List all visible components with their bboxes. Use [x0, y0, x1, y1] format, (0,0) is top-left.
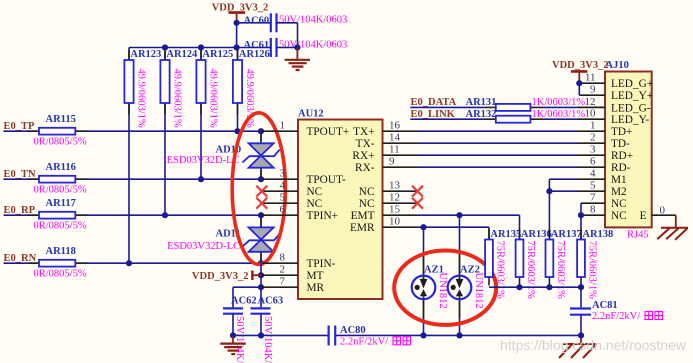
- svg-text:9: 9: [389, 156, 395, 168]
- svg-text:VDD_3V3_2: VDD_3V3_2: [192, 271, 249, 282]
- pin 3 RD+ (AJ10): [578, 144, 633, 162]
- svg-text:RD-: RD-: [611, 162, 631, 174]
- junction VDD node: [234, 20, 240, 26]
- svg-text:VDD_3V3_2: VDD_3V3_2: [552, 60, 609, 71]
- wire E0_TN: [4, 178, 263, 180]
- wire resistor rail: [489, 286, 581, 288]
- svg-text:NC: NC: [307, 198, 323, 210]
- svg-text:1K/0603/1%: 1K/0603/1%: [532, 109, 586, 120]
- svg-text:1K/0603/1%: 1K/0603/1%: [532, 97, 586, 108]
- pin 8 TPIN- (AU12 left): [262, 252, 336, 270]
- svg-text:NC: NC: [359, 186, 375, 198]
- svg-text:0R/0805/5%: 0R/0805/5%: [34, 268, 87, 279]
- wire NC7/NC8 to AR138: [580, 203, 582, 239]
- svg-text:RX-: RX-: [355, 162, 375, 174]
- pin 3 TPOUT- (AU12 left): [262, 168, 346, 186]
- svg-text:NC: NC: [359, 198, 375, 210]
- resistor AR124: [160, 50, 169, 115]
- svg-text:AR126: AR126: [239, 49, 270, 60]
- svg-text:1: 1: [280, 120, 286, 132]
- wire TX/RX row y=155.2: [417, 154, 578, 156]
- capacitor AC81: [570, 309, 591, 315]
- svg-text:AC60: AC60: [244, 15, 270, 26]
- svg-text:0R/0805/5%: 0R/0805/5%: [34, 220, 87, 231]
- svg-text:AR138: AR138: [582, 229, 613, 240]
- wire VDD to AC60 row: [237, 23, 271, 48]
- svg-text:MT: MT: [307, 270, 324, 282]
- svg-text:8: 8: [590, 204, 596, 216]
- svg-text:RX+: RX+: [352, 150, 374, 162]
- svg-text:12: 12: [585, 96, 596, 108]
- svg-text:E0_LINK: E0_LINK: [411, 109, 456, 120]
- pin 1 TPOUT+ (AU12 left): [262, 120, 349, 138]
- svg-text:3: 3: [280, 168, 286, 180]
- svg-text:10: 10: [389, 216, 401, 228]
- svg-text:10: 10: [585, 108, 597, 120]
- svg-text:13: 13: [389, 180, 401, 192]
- resistor AR136: [516, 229, 524, 286]
- pin 14 TX- (AU12 right): [356, 132, 417, 150]
- svg-text:AC62: AC62: [231, 296, 257, 307]
- wire AD column to MT/MR/AC63: [260, 263, 262, 308]
- svg-text:50V/104K/0603: 50V/104K/0603: [279, 40, 347, 51]
- diode AD11 (ESD): [242, 215, 279, 263]
- junction M2: [546, 188, 552, 194]
- junction resistor rail: [516, 284, 584, 290]
- svg-text:ESD03V32D-LC: ESD03V32D-LC: [167, 155, 240, 166]
- junction EMT/AZ2: [456, 212, 462, 218]
- pin 6 RD- (AJ10): [578, 156, 631, 174]
- resistor AR115: [28, 128, 88, 135]
- wire AR138 rail to AC81: [580, 287, 582, 308]
- svg-text:EMR: EMR: [350, 222, 375, 234]
- svg-text:LED_Y-: LED_Y-: [611, 114, 650, 126]
- capacitor AC63: [251, 308, 271, 313]
- svg-text:9: 9: [590, 84, 596, 96]
- wire M2 link: [549, 190, 578, 192]
- svg-text:UN1812: UN1812: [437, 273, 448, 309]
- wire TX/RX row y=167.2: [417, 166, 578, 168]
- svg-text:15: 15: [389, 204, 401, 216]
- connector AJ10 body: [605, 72, 652, 228]
- svg-text:AR118: AR118: [46, 246, 76, 257]
- wire AC62/AC63 to bottom rail: [233, 314, 261, 336]
- svg-text:7: 7: [280, 276, 286, 288]
- power VDD_3V3_2 (at MT): [192, 271, 261, 283]
- svg-text:75R/0603/1%: 75R/0603/1%: [555, 241, 566, 300]
- svg-text:AR116: AR116: [46, 162, 76, 173]
- junction AD11 pins: [258, 212, 264, 266]
- svg-text:MR: MR: [307, 282, 325, 294]
- svg-text:75R/0603/1%: 75R/0603/1%: [495, 241, 506, 300]
- wire E0_LINK: [410, 118, 578, 120]
- junction AR124/E0_RP: [162, 212, 168, 218]
- junction AR126/E0_TP: [234, 128, 240, 134]
- svg-text:5: 5: [590, 180, 596, 192]
- transistor AZ2 (gas discharge tube): [448, 215, 472, 335]
- junction NC8: [578, 212, 584, 218]
- pin 7 MR (AU12 left): [262, 276, 325, 294]
- svg-text:75R/0603/1%: 75R/0603/1%: [525, 241, 536, 300]
- marker ellipse (AD10/AD11): [232, 113, 285, 265]
- svg-text:6: 6: [590, 156, 596, 168]
- pin 6 TPIN+ (AU12 left): [262, 204, 338, 222]
- junction bottom rail: [230, 332, 584, 338]
- pin 4 M1 (AJ10): [578, 168, 627, 186]
- svg-text:LED_Y+: LED_Y+: [611, 90, 653, 102]
- svg-text:AR123: AR123: [130, 49, 161, 60]
- capacitor AC61: [271, 38, 277, 57]
- no-connect X pin13: [412, 186, 423, 197]
- pin 4 NC (AU12 left): [262, 180, 322, 198]
- svg-text:4: 4: [280, 180, 286, 192]
- capacitor AC80: [329, 326, 336, 346]
- svg-text:14: 14: [389, 132, 401, 144]
- no-connect X pin5: [256, 198, 267, 209]
- svg-text:TPOUT+: TPOUT+: [307, 126, 350, 138]
- svg-text:0: 0: [660, 204, 666, 216]
- wire EMT to AR136: [417, 215, 520, 239]
- svg-text:AR125: AR125: [202, 49, 233, 60]
- resistor AR125: [196, 50, 205, 115]
- wire E0_RN: [4, 262, 263, 264]
- pin 5 M2 (AJ10): [578, 180, 627, 198]
- wire column AR123: [128, 48, 130, 264]
- resistor AR126: [233, 50, 242, 115]
- value AC80 2.2nF/2kV/直插: [340, 336, 411, 347]
- svg-text:TD-: TD-: [611, 138, 630, 150]
- pin 9 LED_Y+ (AJ10): [579, 84, 653, 102]
- ground (top, near AC61): [285, 48, 310, 71]
- pin 13 NC (AU12 right): [359, 180, 417, 198]
- no-connect X pin4: [256, 186, 267, 197]
- power VDD_3V3_2 (at AJ10): [552, 60, 609, 83]
- svg-text:EMT: EMT: [351, 210, 375, 222]
- svg-text:49.9/0603/1%: 49.9/0603/1%: [136, 69, 147, 128]
- svg-text:11: 11: [389, 144, 400, 156]
- wire TX/RX row y=131.2: [417, 130, 578, 132]
- junction AD10 pins: [258, 128, 264, 182]
- pin 10 LED_Y- (AJ10): [578, 108, 650, 126]
- wire column AR124: [164, 48, 166, 216]
- svg-text:2.2nF/2kV/: 2.2nF/2kV/: [592, 311, 640, 322]
- resistor AR118: [28, 260, 88, 267]
- wire bottom rail: [233, 334, 581, 336]
- value AC81 2.2nF/2kV/直插: [592, 311, 663, 322]
- svg-text:AR117: AR117: [46, 198, 76, 209]
- svg-text:5: 5: [280, 192, 286, 204]
- svg-text:75R/0603/1%: 75R/0603/1%: [587, 241, 598, 300]
- svg-text:M2: M2: [611, 186, 627, 198]
- pin 15 EMT (AU12 right): [351, 204, 417, 222]
- svg-text:RJ45: RJ45: [627, 230, 649, 241]
- wire top rail: [129, 47, 298, 49]
- wire column AR126: [237, 48, 239, 132]
- resistor AR132: [483, 116, 543, 123]
- svg-text:TPOUT-: TPOUT-: [307, 174, 346, 186]
- pin 8 NC (AJ10): [581, 204, 627, 222]
- svg-text:TX-: TX-: [356, 138, 375, 150]
- pin 11 LED_G+ (AJ10): [579, 72, 653, 90]
- svg-text:8: 8: [280, 252, 286, 264]
- resistor AR116: [28, 176, 88, 183]
- svg-text:1: 1: [590, 120, 596, 132]
- svg-text:7: 7: [590, 192, 596, 204]
- resistor AR117: [28, 212, 88, 219]
- svg-text:RD+: RD+: [611, 150, 633, 162]
- wire M1/M2 to AR137: [549, 179, 578, 239]
- wire TX/RX row y=143.2: [417, 142, 578, 144]
- pin 1 TD+ (AJ10): [578, 120, 632, 138]
- wire AC81 to bottom rail: [580, 315, 582, 336]
- junction AR123/E0_RN: [126, 260, 132, 266]
- pin 9 RX- (AU12 right): [355, 156, 417, 174]
- svg-text:2: 2: [590, 132, 596, 144]
- power VDD_3V3_2 (top): [212, 3, 269, 23]
- junction MT/MR column: [258, 272, 264, 290]
- capacitor AC62: [223, 308, 243, 313]
- ground (chassis, bottom right): [559, 335, 597, 358]
- junction EMR/AZ1: [420, 224, 426, 230]
- svg-text:AR132: AR132: [466, 109, 497, 120]
- svg-text:2: 2: [280, 264, 286, 276]
- svg-text:NC: NC: [611, 210, 627, 222]
- pin 2 MT (AU12 left): [262, 264, 324, 282]
- svg-text:AU12: AU12: [298, 109, 324, 120]
- transistor AZ1 (gas discharge tube): [412, 227, 436, 335]
- svg-text:6: 6: [280, 204, 286, 216]
- svg-text:11: 11: [585, 72, 596, 84]
- pin 16 TX+ (AU12 right): [353, 120, 417, 138]
- svg-text:NC: NC: [307, 186, 323, 198]
- resistor AR137: [546, 229, 554, 286]
- svg-text:AC81: AC81: [592, 300, 618, 311]
- resistor AR123: [124, 50, 133, 115]
- wire AC60 right to ground drop: [277, 23, 298, 48]
- svg-text:TPIN-: TPIN-: [307, 258, 336, 270]
- resistor AR131: [483, 104, 543, 111]
- wire MR row to AC62: [233, 287, 261, 308]
- svg-text:AR115: AR115: [46, 114, 76, 125]
- svg-text:LED_G-: LED_G-: [611, 102, 651, 114]
- svg-text:TD+: TD+: [611, 126, 632, 138]
- pin 5 NC (AU12 left): [262, 192, 322, 210]
- svg-text:NC: NC: [611, 198, 627, 210]
- pin 2 TD- (AJ10): [578, 132, 630, 150]
- junction AR125/E0_TN: [198, 176, 204, 182]
- resistor AR135: [485, 229, 493, 286]
- svg-text:ESD03V32D-LC: ESD03V32D-LC: [167, 241, 240, 252]
- svg-text:49.9/0603/1%: 49.9/0603/1%: [208, 69, 219, 128]
- marker ellipse (AZ1/AZ2): [394, 251, 496, 325]
- junction pin11/VDD: [576, 80, 582, 86]
- svg-text:4: 4: [590, 168, 596, 180]
- svg-text:E0_DATA: E0_DATA: [411, 97, 457, 108]
- svg-text:AC80: AC80: [340, 325, 366, 336]
- junction top rail: [162, 44, 301, 50]
- svg-text:AR136: AR136: [521, 229, 552, 240]
- svg-text:49.9/0603/1%: 49.9/0603/1%: [172, 69, 183, 128]
- svg-text:https://blog.csdn.net/roostnew: https://blog.csdn.net/roostnew: [500, 337, 687, 353]
- svg-text:50V/104K/0603: 50V/104K/0603: [262, 316, 273, 363]
- pin 7 NC (AJ10): [581, 192, 627, 210]
- svg-text:2.2nF/2kV/: 2.2nF/2kV/: [340, 336, 388, 347]
- wire LED supply: [578, 83, 580, 95]
- resistor AR138: [577, 229, 585, 286]
- svg-text:AR131: AR131: [466, 97, 497, 108]
- svg-text:16: 16: [389, 120, 401, 132]
- pin 12 NC (AU12 right): [359, 192, 417, 210]
- no-connect X pin12: [412, 198, 423, 209]
- svg-text:12: 12: [389, 192, 400, 204]
- svg-text:50V/104K/0603: 50V/104K/0603: [234, 316, 245, 363]
- svg-text:50V/104K/0603: 50V/104K/0603: [279, 15, 347, 26]
- op-amp U AU12 body: [298, 120, 383, 300]
- wire E0_TP: [4, 130, 263, 132]
- pin 12 LED_G- (AJ10): [578, 96, 651, 114]
- svg-text:M1: M1: [611, 174, 627, 186]
- wire EMR to AR135: [417, 227, 489, 239]
- svg-text:AJ10: AJ10: [606, 60, 629, 71]
- svg-text:TPIN+: TPIN+: [307, 210, 338, 222]
- pin 10 EMR (AU12 right): [350, 216, 417, 234]
- svg-text:AR124: AR124: [166, 49, 198, 60]
- svg-text:UN1812: UN1812: [473, 273, 484, 309]
- ground (chassis, at E pin): [657, 215, 688, 240]
- svg-text:0R/0805/5%: 0R/0805/5%: [34, 184, 87, 195]
- wire column AR125: [200, 48, 202, 180]
- wire E0_DATA: [410, 106, 578, 108]
- pin 0 E (AJ10 right): [640, 204, 676, 222]
- svg-text:E: E: [640, 210, 647, 222]
- svg-text:TX+: TX+: [353, 126, 374, 138]
- svg-text:3: 3: [590, 144, 596, 156]
- svg-text:0R/0805/5%: 0R/0805/5%: [34, 136, 87, 147]
- diode AD10 (ESD): [242, 131, 279, 179]
- svg-text:AC63: AC63: [258, 296, 284, 307]
- svg-text:LED_G+: LED_G+: [611, 78, 653, 90]
- svg-text:AR137: AR137: [551, 229, 582, 240]
- wire E0_RP: [4, 214, 263, 216]
- capacitor AC60: [271, 13, 277, 32]
- svg-text:AR135: AR135: [490, 229, 521, 240]
- ground (bottom left): [220, 335, 245, 354]
- pin 11 RX+ (AU12 right): [352, 144, 417, 162]
